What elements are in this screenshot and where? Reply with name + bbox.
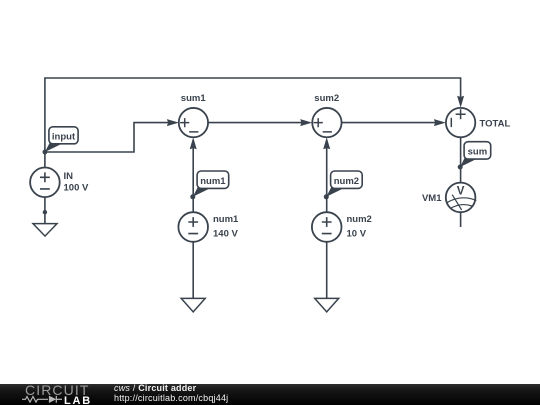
- voltage source num2: [312, 212, 372, 242]
- voltage source num1: [178, 212, 239, 242]
- summer sum2: [312, 93, 341, 137]
- voltmeter VM1: [422, 183, 476, 213]
- svg-text:VM1: VM1: [422, 193, 442, 204]
- wire: sum2 output to TOTAL left input: [342, 122, 439, 124]
- wire: num2 source up to sum2 bottom input: [326, 140, 328, 212]
- svg-text:num2: num2: [334, 176, 359, 187]
- wire: VM1 bottom stub: [460, 212, 462, 227]
- svg-text:sum2: sum2: [314, 93, 339, 104]
- wire: num2 source bottom to ground: [326, 242, 328, 299]
- junction dot at sum node: [458, 165, 463, 170]
- arrowhead into TOTAL left input: [434, 119, 446, 126]
- svg-text:V: V: [457, 186, 465, 198]
- junction dot at num1 node: [190, 194, 195, 199]
- svg-text:num1: num1: [200, 176, 226, 187]
- wire: sum1 output to sum2 left input: [208, 122, 305, 124]
- junction dot below IN source: [43, 210, 47, 214]
- svg-text:sum1: sum1: [181, 93, 207, 104]
- svg-text:LAB: LAB: [64, 395, 92, 405]
- svg-text:TOTAL: TOTAL: [480, 118, 511, 129]
- arrowhead into sum1 bottom input: [190, 137, 197, 149]
- svg-text:10 V: 10 V: [347, 228, 367, 239]
- CircuitLab logo: [0, 384, 110, 405]
- arrowhead into sum2 left input: [300, 119, 312, 126]
- svg-text:IN: IN: [64, 171, 74, 182]
- ground below num2 source: [315, 298, 339, 312]
- arrowhead into sum1 left input: [167, 119, 179, 126]
- summer TOTAL: [446, 108, 511, 137]
- junction dot at num2 node: [324, 194, 329, 199]
- footer bar: [0, 384, 540, 405]
- wire: num1 source bottom to ground: [192, 242, 194, 299]
- svg-text:140 V: 140 V: [213, 228, 238, 239]
- ground below num1 source: [181, 298, 205, 312]
- wire: TOTAL bottom to VM1 top: [460, 137, 462, 182]
- wire: num1 source up to sum1 bottom input: [192, 140, 194, 212]
- flag: node sum: [460, 142, 491, 167]
- svg-text:sum: sum: [468, 146, 488, 157]
- summer sum1: [179, 93, 208, 137]
- wire: IN source bottom to ground: [44, 197, 46, 224]
- svg-text:input: input: [52, 131, 76, 142]
- ground below IN source: [33, 224, 57, 237]
- wire: top feedback net from input node to TOTAL top input: [45, 78, 461, 168]
- svg-text:100 V: 100 V: [64, 183, 89, 194]
- svg-text:num2: num2: [347, 214, 372, 225]
- arrowhead into sum2 bottom input: [323, 137, 330, 149]
- junction dot at input node: [43, 150, 48, 155]
- svg-text:num1: num1: [213, 214, 239, 225]
- voltage source V1 IN: [30, 168, 89, 198]
- flag: node num1: [193, 171, 229, 197]
- wire: input node jog to sum1 left input: [45, 123, 171, 152]
- arrowhead into TOTAL top input: [457, 96, 464, 108]
- flag: node input: [45, 127, 78, 152]
- flag: node num2: [326, 171, 362, 197]
